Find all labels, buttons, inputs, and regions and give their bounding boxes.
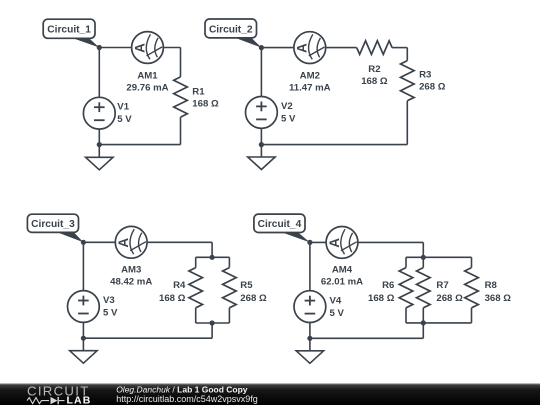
svg-text:268 Ω: 268 Ω: [240, 293, 267, 304]
node circuit4 top junction dot: [307, 240, 312, 245]
logo waveform: diode arrow + bar: [51, 397, 58, 404]
svg-text:Circuit_3: Circuit_3: [31, 219, 75, 230]
node circuit4 bottom junction dot: [307, 336, 312, 341]
logo waveform: resistor zigzag: [27, 398, 49, 404]
wire: circuit4 parallel top bus: [406, 256, 472, 258]
svg-text:R4: R4: [173, 280, 186, 291]
wire: circuit4 top rail: [310, 241, 423, 243]
wire: R7 bottom lead: [422, 308, 424, 323]
voltage source V3: [68, 291, 100, 323]
label Circuit_2 callout: [205, 19, 261, 48]
ground (circuit 1): [86, 145, 113, 170]
label Circuit_3 callout: [27, 214, 83, 242]
svg-text:62.01 mA: 62.01 mA: [321, 277, 363, 288]
wire: R1 bottom lead: [180, 117, 182, 145]
wire: circuit3 parallel bottom bus: [196, 322, 230, 324]
label Circuit_1 callout: [43, 19, 99, 47]
wire: R3 top lead: [406, 48, 408, 61]
wire: R5 top lead: [228, 257, 230, 267]
svg-text:268 Ω: 268 Ω: [419, 82, 446, 93]
node circuit4 bus bottom junction dot: [421, 320, 426, 325]
wire: circuit3 top rail: [83, 241, 212, 243]
wire: R2 right lead to corner: [392, 47, 407, 49]
svg-text:R6: R6: [382, 280, 394, 291]
wire: circuit4 bottom rail: [310, 337, 423, 339]
wire: circuit2 left vertical through V2: [260, 48, 262, 145]
svg-text:268 Ω: 268 Ω: [436, 293, 463, 304]
svg-text:V3: V3: [103, 295, 115, 306]
svg-text:AM3: AM3: [121, 265, 141, 276]
svg-text:A: A: [132, 43, 147, 53]
svg-text:R1: R1: [192, 86, 205, 97]
wire: circuit2 bottom rail: [261, 144, 407, 146]
resistor R4 zigzag: [189, 268, 203, 308]
ground (circuit 3): [70, 338, 97, 363]
svg-text:168 Ω: 168 Ω: [192, 99, 219, 110]
svg-text:5 V: 5 V: [117, 114, 132, 125]
svg-text:368 Ω: 368 Ω: [485, 293, 512, 304]
voltage source V2: [246, 97, 278, 129]
svg-text:Circuit_1: Circuit_1: [47, 25, 91, 36]
svg-text:V2: V2: [281, 101, 293, 112]
wire: R4 top lead: [195, 257, 197, 267]
label Circuit_4 callout: [254, 214, 310, 242]
ground (circuit 2): [248, 145, 275, 170]
resistor R2 zigzag: [357, 41, 392, 55]
svg-text:R3: R3: [419, 69, 431, 80]
wire: feed to parallel bus: [422, 242, 424, 257]
node circuit1 top junction dot: [97, 45, 102, 50]
svg-text:R2: R2: [368, 64, 380, 75]
wire: circuit1 top rail node A to R1 branch: [99, 47, 180, 49]
svg-text:AM2: AM2: [300, 71, 320, 82]
svg-text:R7: R7: [436, 280, 448, 291]
svg-text:R8: R8: [485, 280, 498, 291]
node circuit2 bottom junction dot: [259, 142, 264, 147]
svg-text:LAB: LAB: [67, 394, 92, 405]
wire: parallel bus to bottom rail: [422, 323, 424, 338]
wire: circuit1 left vertical through V1: [98, 48, 100, 145]
svg-text:A: A: [327, 238, 342, 248]
svg-text:5 V: 5 V: [330, 308, 345, 319]
svg-text:Circuit_4: Circuit_4: [258, 219, 302, 230]
ammeter AM4: [326, 227, 358, 259]
wire: R5 bottom lead: [228, 308, 230, 323]
wire: circuit3 parallel top bus: [196, 256, 230, 258]
wire: circuit3 bottom rail: [83, 337, 212, 339]
svg-text:11.47 mA: 11.47 mA: [289, 82, 331, 93]
node circuit2 top junction dot: [259, 45, 264, 50]
svg-text:48.42 mA: 48.42 mA: [110, 277, 152, 288]
resistor R5 zigzag: [223, 268, 237, 308]
node circuit3 top junction dot: [81, 240, 86, 245]
svg-text:168 Ω: 168 Ω: [159, 293, 186, 304]
svg-text:A: A: [295, 43, 310, 53]
wire: R1 top lead: [180, 48, 182, 77]
node circuit1 bottom junction dot: [97, 142, 102, 147]
ammeter AM1: [132, 32, 164, 64]
ammeter AM3: [115, 226, 147, 258]
svg-text:AM1: AM1: [137, 71, 158, 82]
footer background bar: [0, 383, 540, 405]
wire: circuit4 parallel bottom bus: [406, 322, 472, 324]
node circuit3 bottom junction dot: [81, 336, 86, 341]
wire: R3 bottom lead: [406, 101, 408, 145]
wire: R7 top lead: [422, 257, 424, 267]
resistor R3 zigzag: [401, 61, 415, 101]
svg-text:AM4: AM4: [332, 265, 353, 276]
wire: parallel bus to bottom rail: [211, 323, 213, 338]
voltage source V4: [294, 291, 326, 323]
svg-text:5 V: 5 V: [281, 114, 296, 125]
svg-text:A: A: [116, 238, 131, 248]
resistor R7 zigzag: [417, 268, 431, 308]
resistor R6 zigzag: [399, 268, 413, 308]
ground (circuit 4): [296, 338, 323, 363]
wire: R6 bottom lead: [405, 308, 407, 323]
wire: R8 top lead: [471, 257, 473, 267]
svg-text:Circuit_2: Circuit_2: [209, 24, 253, 35]
svg-text:V4: V4: [330, 295, 342, 306]
node circuit3 bus top junction dot: [210, 255, 215, 260]
svg-text:R5: R5: [240, 280, 253, 291]
ammeter AM2: [294, 32, 326, 64]
svg-text:29.76 mA: 29.76 mA: [126, 82, 168, 93]
svg-text:5 V: 5 V: [103, 308, 118, 319]
wire: circuit1 bottom rail: [99, 144, 180, 146]
wire: circuit3 left vertical through V3: [82, 242, 84, 338]
resistor R1 zigzag: [174, 77, 188, 117]
wire: feed to parallel bus: [211, 242, 213, 257]
wire: circuit2 top rail to R2: [261, 47, 356, 49]
wire: circuit4 left vertical through V4: [309, 242, 311, 338]
node circuit3 bus bottom junction dot: [210, 320, 215, 325]
wire: R8 bottom lead: [471, 308, 473, 323]
svg-text:V1: V1: [117, 102, 129, 113]
svg-text:168 Ω: 168 Ω: [368, 293, 395, 304]
svg-text:http://circuitlab.com/c54w2vps: http://circuitlab.com/c54w2vpsvx9fg: [116, 394, 258, 404]
wire: R6 top lead: [405, 257, 407, 267]
node circuit4 bus top junction dot: [421, 255, 426, 260]
voltage source V1: [83, 97, 115, 129]
svg-text:168 Ω: 168 Ω: [361, 76, 388, 87]
resistor R8 zigzag: [465, 268, 479, 308]
wire: R4 bottom lead: [195, 308, 197, 323]
